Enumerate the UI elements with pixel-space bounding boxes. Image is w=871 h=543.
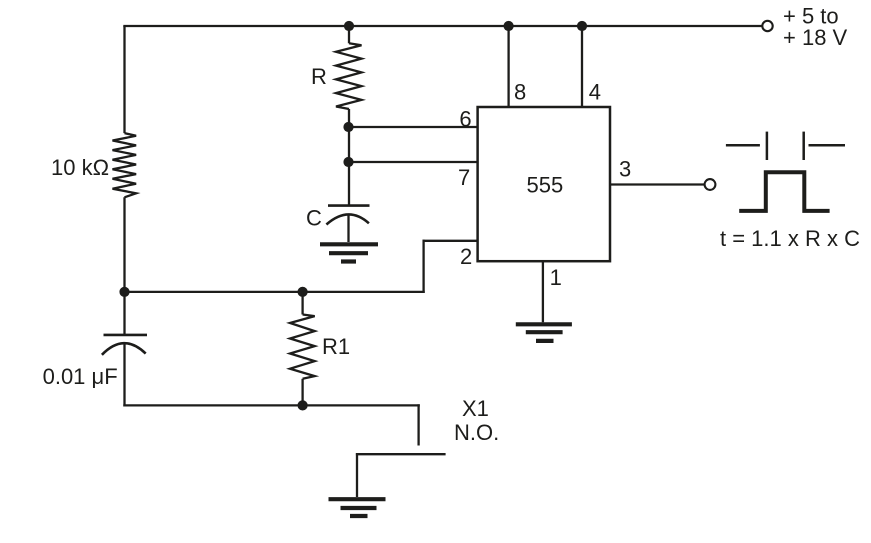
node junction R top on supply rail	[344, 21, 354, 31]
wire pin 8 vertical	[507, 26, 509, 107]
waveform timing mark right bar	[802, 132, 805, 160]
label R1	[322, 334, 350, 359]
label R	[311, 64, 327, 89]
node junction R1 top	[298, 287, 308, 297]
node junction pin6	[343, 122, 353, 132]
waveform timing mark right dash	[809, 144, 846, 147]
wire pin 6	[349, 126, 478, 128]
wire pin 4 vertical	[581, 26, 583, 107]
svg-text:2: 2	[460, 244, 472, 269]
resistor 10 kOhm	[113, 133, 137, 197]
label 10 kOhm	[51, 155, 109, 180]
waveform output pulse	[739, 172, 829, 211]
pin label 6	[459, 107, 471, 132]
wire left vertical from 10k to lower node	[123, 197, 125, 292]
svg-text:0.01 μF: 0.01 μF	[43, 364, 118, 389]
svg-text:3: 3	[619, 157, 631, 182]
wire pin2 net horizontal	[125, 291, 425, 293]
label C	[306, 206, 322, 231]
wire top supply rail	[123, 25, 762, 27]
pin label 8	[514, 80, 526, 105]
node junction pin8 on rail	[504, 21, 514, 31]
node junction left / pin2 net	[119, 287, 129, 297]
wire pin2 vertical riser	[422, 240, 424, 293]
waveform timing mark left bar	[766, 132, 769, 160]
svg-text:10 kΩ: 10 kΩ	[51, 155, 109, 180]
ground under pin 1	[516, 324, 572, 341]
wire bottom horizontal (cap bottom to switch)	[123, 404, 420, 406]
pin label 4	[589, 80, 601, 105]
ground under capacitor C	[320, 244, 378, 261]
terminal output (open circle)	[705, 179, 716, 190]
svg-text:R1: R1	[322, 334, 350, 359]
svg-text:t = 1.1 x R x C: t = 1.1 x R x C	[720, 226, 860, 251]
svg-text:4: 4	[589, 80, 601, 105]
op-amp / IC U1 555 body	[478, 107, 610, 261]
node junction pin7	[343, 157, 353, 167]
wire left vertical from top rail to 10k resistor	[123, 26, 125, 133]
svg-text:1: 1	[550, 265, 562, 290]
capacitor C	[326, 206, 369, 242]
pin label 2	[460, 244, 472, 269]
node junction R1 bottom	[298, 400, 308, 410]
wire R bottom vertical to capacitor C	[348, 109, 350, 206]
wire pin 1 vertical	[542, 261, 544, 322]
resistor R1	[290, 292, 315, 406]
pin label 7	[458, 165, 470, 190]
svg-text:8: 8	[514, 80, 526, 105]
svg-text:7: 7	[458, 165, 470, 190]
wire pin 3 output	[610, 183, 705, 185]
capacitor 0.01 uF (lead from node to top plate)	[102, 292, 147, 407]
wire pin 7	[349, 161, 478, 163]
label 555	[527, 173, 564, 198]
resistor R (lead + zigzag)	[336, 26, 362, 109]
pin label 3	[619, 157, 631, 182]
ground under switch	[329, 499, 386, 516]
label +5 to +18 V	[783, 4, 848, 51]
label X1 N.O.	[454, 396, 499, 445]
svg-text:555: 555	[527, 173, 564, 198]
waveform timing mark left dash	[726, 144, 760, 147]
wire pin2 to IC	[423, 240, 478, 242]
svg-text:X1: X1	[462, 396, 489, 421]
svg-text:R: R	[311, 64, 327, 89]
switch X1 N.O. pushbutton bar	[356, 453, 446, 497]
svg-text:6: 6	[459, 107, 471, 132]
label t = 1.1 x R x C	[720, 226, 860, 251]
wire vertical down to switch	[417, 404, 419, 445]
terminal +V (open circle)	[762, 21, 772, 31]
svg-text:+ 18 V: + 18 V	[783, 25, 848, 50]
pin label 1	[550, 265, 562, 290]
svg-text:N.O.: N.O.	[454, 420, 499, 445]
label 0.01 uF	[43, 364, 118, 389]
svg-text:C: C	[306, 206, 322, 231]
node junction pin4 on rail	[577, 21, 587, 31]
